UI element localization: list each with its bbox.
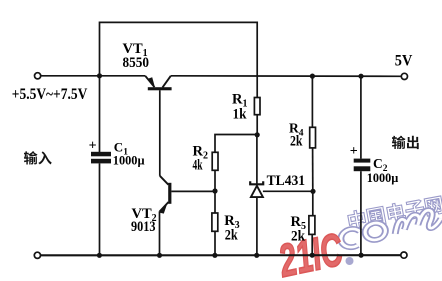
input terminal top — [35, 73, 41, 79]
node B junction R1/R2/TL431 — [255, 132, 260, 137]
output terminal top — [401, 73, 407, 79]
output terminal bottom — [401, 252, 407, 258]
shunt regulator U1 TL431 — [250, 135, 313, 255]
transistor VT1 (8550 PNP) — [100, 76, 172, 176]
junction rail/R5 — [310, 253, 315, 258]
input terminal bottom — [34, 252, 40, 258]
svg-text:9013: 9013 — [131, 219, 156, 235]
svg-text:4k: 4k — [193, 157, 203, 173]
junction rail/C2 — [359, 253, 364, 258]
svg-text:2k: 2k — [225, 228, 239, 244]
resistor R4 — [310, 76, 316, 191]
node A junction input/C1/bypass — [97, 73, 102, 78]
capacitor C1 — [89, 76, 111, 256]
resistor R5 — [309, 191, 315, 255]
node D junction TL431 ref / R4 / R5 — [310, 189, 315, 194]
wire top bypass rail to R1 — [100, 22, 258, 97]
node E junction rail/R4 — [310, 74, 315, 79]
resistor R2 — [212, 152, 218, 191]
svg-text:2k: 2k — [290, 133, 303, 149]
watermark .com — [339, 208, 442, 249]
transistor VT2 (9013 NPN) — [159, 176, 215, 256]
label 输入 — [24, 151, 52, 164]
watermark dot — [346, 257, 354, 265]
svg-text:8550: 8550 — [123, 55, 150, 71]
svg-text:1k: 1k — [233, 106, 248, 122]
svg-text:+: + — [350, 144, 358, 159]
resistor R3 — [212, 191, 218, 255]
wire VT1 collector to output — [171, 75, 402, 78]
svg-text:5V: 5V — [395, 53, 413, 70]
junction rail/VT2 emitter — [157, 253, 162, 258]
watermark 21IC — [274, 224, 348, 281]
watermark 中国电子网 — [347, 195, 442, 231]
junction rail/TL431 anode — [254, 253, 259, 258]
node F junction rail/C2 — [358, 74, 363, 79]
svg-text:+: + — [89, 138, 97, 153]
svg-text:1000µ: 1000µ — [113, 153, 145, 168]
wire input to node A — [41, 75, 100, 77]
svg-text:TL431: TL431 — [267, 173, 306, 189]
resistor R1 — [254, 98, 260, 136]
label 输出 — [392, 136, 419, 149]
svg-text:1000µ: 1000µ — [367, 170, 399, 185]
capacitor C2 — [350, 76, 371, 255]
svg-text:2k: 2k — [291, 228, 306, 244]
ground rail (bottom return wire) — [41, 254, 401, 256]
node C junction R2/R3/VT2 base — [212, 188, 217, 193]
junction rail/R3 — [212, 253, 217, 258]
junction rail/C1 — [97, 253, 102, 258]
wire node B to R2 — [215, 135, 257, 153]
svg-text:+5.5V~+7.5V: +5.5V~+7.5V — [12, 86, 88, 103]
